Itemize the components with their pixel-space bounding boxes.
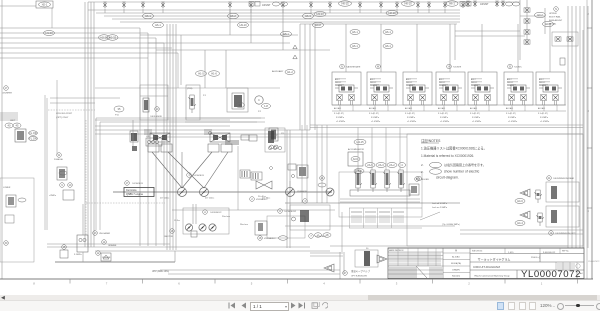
svg-text:3: 3 xyxy=(304,200,306,203)
svg-text:3.92MPa: 3.92MPa xyxy=(371,117,380,119)
svg-text:9: 9 xyxy=(61,184,63,187)
svg-text:P: P xyxy=(276,135,278,137)
svg-text:N: N xyxy=(341,66,343,69)
svg-text:%JOB#BOX: %JOB#BOX xyxy=(193,175,205,177)
svg-text:P11: P11 xyxy=(115,115,120,117)
svg-text:H6-2: H6-2 xyxy=(230,14,236,18)
svg-text:H8-1: H8-1 xyxy=(283,32,289,36)
svg-text:KA-10(5): KA-10(5) xyxy=(452,275,460,278)
svg-text:3.92MPa: 3.92MPa xyxy=(407,117,416,119)
svg-text:HYDRAULIC: HYDRAULIC xyxy=(264,237,276,240)
svg-text:3.1-4(1.37): 3.1-4(1.37) xyxy=(438,113,448,115)
svg-text:(OPT) ONLY: (OPT) ONLY xyxy=(56,117,69,119)
svg-text:YL00007072: YL00007072 xyxy=(521,269,581,280)
svg-text:50: 50 xyxy=(366,248,369,250)
svg-text:%JOB#L: %JOB#L xyxy=(514,67,523,69)
svg-text:4: 4 xyxy=(588,210,590,213)
svg-text:H6-1: H6-1 xyxy=(352,44,358,48)
svg-text:REF No.: REF No. xyxy=(562,251,569,253)
svg-text:3.1-4(1.37): 3.1-4(1.37) xyxy=(334,113,344,115)
svg-text:H3-2: H3-2 xyxy=(537,13,543,17)
svg-text:A4: A4 xyxy=(580,272,583,275)
svg-text:は電気回路図上の番号を示す。: は電気回路図上の番号を示す。 xyxy=(444,162,486,167)
svg-text:9.00034.012: 9.00034.012 xyxy=(543,252,556,254)
svg-text:3: 3 xyxy=(588,110,590,113)
svg-text:18: 18 xyxy=(326,233,329,237)
svg-text:2.: 2. xyxy=(421,163,424,167)
svg-text:H6-1: H6-1 xyxy=(352,30,358,34)
svg-text:<1.47MPa: <1.47MPa xyxy=(472,120,482,123)
svg-text:2: 2 xyxy=(588,13,590,16)
svg-text:3.1MPa: 3.1MPa xyxy=(74,254,82,256)
svg-text:A: A xyxy=(279,210,281,213)
svg-text:20~110cc: 20~110cc xyxy=(205,198,215,200)
svg-text:H6-1: H6-1 xyxy=(155,23,161,27)
svg-text:2: 2 xyxy=(251,198,253,201)
svg-text:7: 7 xyxy=(310,235,312,238)
svg-text:P.2: P.2 xyxy=(258,111,262,113)
svg-text:FL.OR: FL.OR xyxy=(29,131,37,135)
svg-text:GREASE: GREASE xyxy=(108,244,117,247)
svg-text:2A-3: 2A-3 xyxy=(378,163,384,167)
svg-text:3: 3 xyxy=(396,282,398,286)
svg-text:BODY RAIL: BODY RAIL xyxy=(549,16,561,19)
svg-text:MARK REVISION: MARK REVISION xyxy=(389,249,404,252)
svg-text:%JOB#BOX: %JOB#BOX xyxy=(132,183,144,185)
svg-text:3.1-4(1.37): 3.1-4(1.37) xyxy=(369,113,379,115)
svg-text:40: 40 xyxy=(8,124,11,128)
svg-text:3.92MPa: 3.92MPa xyxy=(540,117,549,119)
svg-text:3.1-4(1.37): 3.1-4(1.37) xyxy=(405,113,415,115)
svg-text:circuit-diagram.: circuit-diagram. xyxy=(436,176,459,180)
svg-text:H9-8: H9-8 xyxy=(315,23,321,27)
svg-text:AL10BLI: AL10BLI xyxy=(452,256,460,259)
svg-text:%JOB#R: %JOB#R xyxy=(453,67,462,69)
svg-text:UPP (MRC.UPL): UPP (MRC.UPL) xyxy=(152,271,169,273)
svg-text:名称 (TITLE): 名称 (TITLE) xyxy=(472,249,483,253)
svg-text:H6-1: H6-1 xyxy=(385,30,391,34)
svg-text:%AGGREGATE: %AGGREGATE xyxy=(346,66,361,69)
svg-text:45: 45 xyxy=(16,124,19,128)
svg-text:FL.OR: FL.OR xyxy=(29,137,37,141)
svg-text:DRAWN: DRAWN xyxy=(452,269,460,272)
svg-text:OPT EJE08107B: OPT EJE08107B xyxy=(351,276,367,278)
svg-text:ACC: ACC xyxy=(353,157,359,161)
svg-text:1: 1 xyxy=(541,282,543,286)
svg-text:ASSIST: ASSIST xyxy=(480,3,489,6)
svg-text:H2-1: H2-1 xyxy=(42,3,48,7)
svg-text:35: 35 xyxy=(118,107,121,111)
svg-text:YL00007072: YL00007072 xyxy=(588,261,600,263)
svg-text:13.5cc: 13.5cc xyxy=(174,220,180,222)
svg-text:注記/NOTES: 注記/NOTES xyxy=(421,138,441,143)
svg-text:H4-15: H4-15 xyxy=(356,140,364,144)
svg-text:H6-1: H6-1 xyxy=(385,44,391,48)
svg-text:AUXILIARY: AUXILIARY xyxy=(272,70,284,73)
svg-text:1,015: 1,015 xyxy=(508,252,514,254)
svg-text:20~110cc: 20~110cc xyxy=(160,198,170,200)
svg-text:1.Material is referred to XC00: 1.Material is referred to XC00001926. xyxy=(421,154,474,158)
svg-text:QSB6.7 engine: QSB6.7 engine xyxy=(126,193,144,196)
svg-text:5: 5 xyxy=(251,282,253,286)
svg-text:UPPER: UPPER xyxy=(549,13,557,15)
svg-text:1-8: 1-8 xyxy=(264,104,268,108)
svg-text:HD-KEB: HD-KEB xyxy=(421,179,429,181)
svg-text:3.92MPa: 3.92MPa xyxy=(440,117,449,119)
svg-text:20~40cc: 20~40cc xyxy=(258,196,266,198)
svg-text:<1.47MPa: <1.47MPa xyxy=(540,120,550,123)
svg-text:KE10A(TA): KE10A(TA) xyxy=(451,262,461,265)
svg-text:8: 8 xyxy=(33,282,35,286)
svg-text:7: 7 xyxy=(106,282,108,286)
svg-text:H4-6: H4-6 xyxy=(517,199,523,203)
svg-text:2: 2 xyxy=(468,282,470,286)
svg-text:車高キープバルブ: 車高キープバルブ xyxy=(351,269,371,273)
svg-text:H6-10: H6-10 xyxy=(404,2,412,6)
svg-text:CIRCUIT-DIAGRAM: CIRCUIT-DIAGRAM xyxy=(473,265,501,269)
svg-text:M: M xyxy=(377,66,379,69)
svg-text:ASSIST: ASSIST xyxy=(262,4,271,7)
svg-text:P.GAUGE: P.GAUGE xyxy=(54,158,64,161)
svg-text:係: 係 xyxy=(455,249,457,253)
svg-text:P.1: P.1 xyxy=(203,95,207,97)
svg-text:(P1B): (P1B) xyxy=(187,88,193,90)
svg-text:2A-2: 2A-2 xyxy=(389,163,395,167)
svg-text:2A-5: 2A-5 xyxy=(367,163,373,167)
svg-text:3.92MPa: 3.92MPa xyxy=(336,117,345,119)
svg-text:LOWER: LOWER xyxy=(3,187,11,189)
svg-text:H6-1: H6-1 xyxy=(145,14,151,18)
svg-text:<1.47MPa: <1.47MPa xyxy=(407,120,417,123)
svg-text:20cc/rev: 20cc/rev xyxy=(222,215,231,218)
svg-text:6: 6 xyxy=(178,282,180,286)
svg-text:サーキットダイヤグラム: サーキットダイヤグラム xyxy=(478,257,511,262)
svg-text:<1.47MPa: <1.47MPa xyxy=(508,120,518,123)
svg-text:LPG/ RIG PORT: LPG/ RIG PORT xyxy=(56,113,73,115)
svg-text:H1-23: H1-23 xyxy=(45,31,53,35)
svg-text:H3-13: H3-13 xyxy=(316,12,324,16)
svg-text:BGM ASSIST: BGM ASSIST xyxy=(549,19,563,22)
svg-text:N: N xyxy=(555,8,557,11)
svg-text:4: 4 xyxy=(323,282,325,286)
svg-text:<1.47MPa: <1.47MPa xyxy=(440,120,450,123)
svg-text:%SOLENOID: %SOLENOID xyxy=(150,116,163,118)
svg-text:3.1-4(1.37): 3.1-4(1.37) xyxy=(470,113,480,115)
svg-text:H1-6: H1-6 xyxy=(211,72,217,76)
svg-text:B: B xyxy=(509,66,511,69)
svg-text:3.1-4(1.37): 3.1-4(1.37) xyxy=(506,113,516,115)
svg-text:H9-10: H9-10 xyxy=(239,23,247,27)
svg-text:4: 4 xyxy=(401,163,403,167)
svg-text:3.92MPa: 3.92MPa xyxy=(508,117,517,119)
svg-text:H2-32: H2-32 xyxy=(109,36,117,40)
svg-text:CUSHION: CUSHION xyxy=(297,191,307,193)
svg-text:3.92MPa: 3.92MPa xyxy=(472,117,481,119)
svg-text:<1.47MPa: <1.47MPa xyxy=(371,120,381,123)
svg-text:HYDRAULIC: HYDRAULIC xyxy=(256,198,268,201)
svg-text:A: A xyxy=(204,211,206,214)
svg-text:Cummins: Cummins xyxy=(126,189,137,192)
svg-text:%SUSPENSION REAR: %SUSPENSION REAR xyxy=(553,177,575,180)
svg-text:C: C xyxy=(258,99,260,102)
svg-text:H1-5: H1-5 xyxy=(198,72,204,76)
svg-text:1.油圧機器リストは図番XC00001926による。: 1.油圧機器リストは図番XC00001926による。 xyxy=(421,146,487,151)
svg-text:Hitachi Construction Machinery: Hitachi Construction Machinery Group xyxy=(474,274,510,277)
svg-text:show number of electric: show number of electric xyxy=(444,170,480,174)
svg-text:%MOTOR: %MOTOR xyxy=(164,236,173,238)
svg-text:2B-4: 2B-4 xyxy=(356,169,362,173)
svg-text:2.: 2. xyxy=(421,170,424,174)
svg-text:H2-10: H2-10 xyxy=(388,11,396,15)
svg-text:H1-2: H1-2 xyxy=(287,70,293,74)
svg-text:26cc/rev: 26cc/rev xyxy=(240,223,249,226)
svg-text:(Tr)--3.0980(.3MPa): (Tr)--3.0980(.3MPa) xyxy=(442,224,460,226)
svg-text:Lock off 0.9MPa: Lock off 0.9MPa xyxy=(432,203,448,205)
svg-text:Lock on 2.9MPa: Lock on 2.9MPa xyxy=(432,207,448,209)
svg-text:<2MPa: <2MPa xyxy=(49,194,57,197)
svg-text:H4-4: H4-4 xyxy=(517,221,523,225)
svg-text:ACCUMULATOR: ACCUMULATOR xyxy=(348,148,364,151)
svg-text:H6-3: H6-3 xyxy=(305,14,311,18)
svg-text:250KG -(): 250KG -() xyxy=(531,257,540,259)
svg-text:3.1-4(1.37): 3.1-4(1.37) xyxy=(538,113,548,115)
svg-text:<1.47MPa: <1.47MPa xyxy=(336,120,346,123)
svg-text:H6-1: H6-1 xyxy=(449,2,455,6)
svg-text:%JOB#BOX2: %JOB#BOX2 xyxy=(210,212,221,214)
svg-text:UNLOADER: UNLOADER xyxy=(99,232,111,235)
svg-text:H6-15: H6-15 xyxy=(341,2,349,6)
svg-text:%JOB#BOX2: %JOB#BOX2 xyxy=(284,211,297,213)
svg-text:CRUSHER: CRUSHER xyxy=(2,93,12,95)
